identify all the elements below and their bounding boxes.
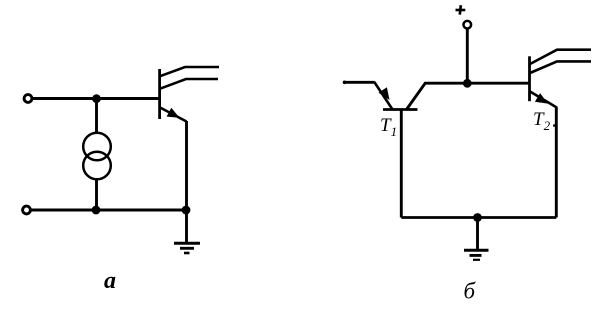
node junction bottom of current source (92, 206, 101, 215)
transistor T2 collector line 2 (530, 61, 591, 73)
node junction top (92, 94, 101, 103)
wire T1 collector to T2 base (407, 83, 529, 109)
transistor T2 collector line 1 (530, 50, 591, 64)
wire bottom rail left circuit (31, 209, 187, 212)
node junction supply (463, 79, 472, 88)
transistor Q1 emitter with arrow (160, 108, 187, 122)
current source G1 circle upper (83, 133, 111, 161)
current source G1 circle lower (83, 152, 111, 180)
node junction emitter/ground (182, 206, 191, 215)
ground symbol right circuit (464, 250, 489, 259)
transistor Q1 collector line 1 (160, 67, 219, 76)
terminal input top-left (24, 95, 32, 103)
wire bottom rail right circuit (401, 216, 556, 219)
label + supply (456, 5, 466, 14)
wire top input (32, 97, 160, 100)
wire T2 emitter down (555, 107, 558, 218)
ground stub left circuit (185, 210, 188, 242)
wire input to T1 emitter (344, 81, 375, 84)
svg-text:а: а (104, 268, 116, 294)
ground stub right circuit (476, 218, 479, 250)
transistor Q1 collector line 2 (160, 79, 218, 89)
node junction ground right (473, 213, 482, 222)
terminal supply (464, 21, 472, 29)
node speck near T2 (553, 124, 556, 127)
wire T1 base lead down (400, 110, 403, 218)
transistor T1 base bar (383, 108, 418, 111)
wire current-source top lead (95, 99, 98, 135)
wire supply vertical (466, 30, 469, 84)
transistor Q1 base bar (158, 69, 161, 119)
wire current-source bottom lead (95, 178, 98, 210)
transistor T2 emitter with arrow (530, 92, 556, 108)
transistor T2 base bar (528, 56, 531, 101)
svg-text:б: б (464, 279, 477, 304)
wire emitter to bottom rail (185, 121, 188, 210)
terminal input bottom-left (23, 206, 31, 214)
ground symbol left circuit (174, 243, 200, 253)
node input wire end (343, 81, 347, 85)
transistor T1 emitter with arrow (374, 82, 392, 109)
